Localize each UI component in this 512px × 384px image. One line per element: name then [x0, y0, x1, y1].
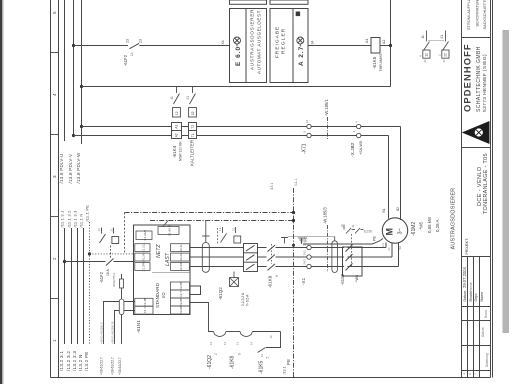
node PE junction 2	[292, 219, 295, 222]
svg-text:22: 22	[191, 111, 195, 115]
svg-text:REGLER: REGLER	[281, 28, 287, 54]
wire coil to rail riser	[390, 0, 392, 87]
wire control X1.3B out	[104, 302, 135, 345]
svg-text:5: 5	[52, 11, 57, 14]
svg-text:14: 14	[250, 341, 254, 345]
svg-text:BEVORRATUNG: BEVORRATUNG	[475, 0, 480, 27]
pin cell X1.3A	[136, 231, 152, 240]
node junction PDLV-W kaltleiter	[80, 125, 83, 128]
company logo triangle	[462, 121, 490, 144]
svg-text:+38-61/22.7: +38-61/22.7	[100, 357, 104, 375]
svg-text:2W1: 2W1	[303, 259, 307, 265]
thermistor relay -61K4 T1 T2	[189, 123, 197, 139]
svg-text:X1.9A R: X1.9A R	[168, 224, 172, 236]
pin cell X2.9B	[171, 306, 190, 314]
svg-text:+SA.W5: +SA.W5	[359, 141, 363, 155]
svg-text:V1: V1	[387, 247, 391, 251]
svg-text:X1.3B: X1.3B	[143, 298, 147, 306]
pin cell X1.2	[135, 253, 150, 261]
svg-text:X2.2V: X2.2V	[179, 253, 183, 261]
wire PE supply dotted	[89, 222, 91, 344]
motor -61M2	[382, 218, 407, 243]
svg-text:/13.2 3.3: /13.2 3.3	[72, 351, 77, 371]
svg-text:X1.1L1: X1.1L1	[141, 243, 145, 253]
svg-text:W6227B-6: W6227B-6	[112, 272, 116, 287]
svg-text:TONERANLAGE - T05: TONERANLAGE - T05	[483, 153, 489, 214]
scan right edge gray band	[503, 30, 510, 333]
svg-text:11: 11	[170, 96, 174, 100]
node junction PDLV-V kaltleiter	[72, 134, 75, 137]
pin cell X1.1	[135, 244, 150, 252]
svg-text:X1.3PE: X1.3PE	[141, 261, 145, 271]
svg-text:-61K5: -61K5	[372, 56, 377, 69]
svg-text:8: 8	[275, 275, 279, 277]
svg-text:13: 13	[236, 341, 240, 345]
svg-text:0,55 kW: 0,55 kW	[427, 216, 432, 233]
contact chain -61K8 aux	[240, 332, 252, 337]
svg-text:2: 2	[214, 353, 218, 355]
wire PDLV-W upper rail	[81, 0, 83, 144]
svg-text:A2: A2	[382, 40, 386, 44]
thermistor relay -61K4 A1 A2	[172, 123, 182, 139]
svg-text:TMR-6MHS: TMR-6MHS	[379, 53, 383, 72]
svg-text:/13.2 N: /13.2 N	[78, 354, 83, 371]
svg-text:-W.185/3: -W.185/3	[322, 207, 327, 224]
cable shield 1	[202, 243, 209, 273]
wire PE riser	[293, 188, 295, 378]
svg-text:T2: T2	[191, 125, 195, 129]
cable shield 2	[332, 241, 338, 273]
pin cell X1.3B	[135, 298, 153, 306]
svg-text:A1: A1	[365, 39, 369, 43]
wire motor phase U	[190, 243, 387, 248]
svg-text:/11.1 3.2: /11.1 3.2	[66, 210, 71, 228]
pin cell X2.1	[171, 244, 190, 252]
svg-text:M: M	[385, 228, 395, 236]
contact -61F2 main	[106, 259, 114, 266]
svg-text:13: 13	[97, 228, 101, 232]
svg-text:KALTLEITER: KALTLEITER	[189, 140, 194, 166]
contact chain -61Q2 aux	[214, 332, 226, 337]
svg-text:PE: PE	[286, 359, 291, 365]
svg-text:-61N1: -61N1	[136, 320, 141, 333]
svg-text:-X1: -X1	[301, 277, 306, 285]
svg-text:5: 5	[266, 357, 270, 359]
svg-text:/11.1 3.3: /11.1 3.3	[72, 210, 77, 228]
svg-text:T1: T1	[191, 133, 195, 137]
svg-text:12: 12	[425, 53, 429, 57]
node PE junction 3	[292, 244, 295, 247]
relay coil -61K5	[371, 38, 380, 54]
circuit breaker -61F2 aux	[100, 228, 119, 259]
wire PE bus upper	[125, 212, 294, 214]
svg-text:=38-G1-A/512W.18: =38-G1-A/512W.18	[111, 321, 115, 344]
wire PE branch dashed	[124, 213, 126, 254]
svg-text:A 2.7: A 2.7	[298, 46, 305, 66]
motor breaker -61Q2	[244, 244, 258, 272]
contact -61Q2 aux	[221, 227, 241, 243]
svg-text:21: 21	[440, 35, 444, 39]
svg-text:4: 4	[52, 93, 57, 96]
svg-text:/11.1 3.1: /11.1 3.1	[59, 210, 64, 228]
node junction coil output	[389, 44, 392, 47]
svg-text:2U1: 2U1	[303, 240, 307, 246]
svg-text:+38-61/22.7: +38-61/22.7	[111, 357, 115, 375]
svg-text:X2.3W: X2.3W	[179, 262, 183, 271]
svg-text:-61S2: -61S2	[340, 273, 345, 285]
pin cell X1.3	[135, 263, 150, 271]
frequency converter -61N1	[134, 225, 191, 315]
svg-text:21: 21	[231, 227, 235, 231]
svg-text:-X.JB2: -X.JB2	[350, 142, 356, 157]
wire chain step	[266, 332, 281, 348]
svg-text:/15.1: /15.1	[270, 183, 274, 190]
svg-text:-61Q2: -61Q2	[207, 355, 213, 369]
svg-text:X2.1U: X2.1U	[179, 243, 183, 251]
wire motor phase W	[190, 242, 399, 266]
contact chain -61K5	[258, 348, 266, 353]
cable marker -W.185/3	[327, 225, 329, 272]
scan left edge	[0, 0, 2, 384]
svg-text:16: 16	[269, 335, 273, 339]
node PE junction 1	[292, 211, 295, 214]
wire L feed	[65, 261, 106, 263]
svg-text:NETZ: NETZ	[156, 244, 162, 258]
svg-text:/13.2 3.2: /13.2 3.2	[66, 351, 71, 371]
svg-text:Norm: Norm	[484, 310, 488, 318]
svg-text:/11.1: /11.1	[294, 179, 298, 186]
svg-text:/13.2 3.1: /13.2 3.1	[59, 351, 64, 371]
svg-text:I/O: I/O	[161, 292, 166, 298]
svg-text:14: 14	[130, 52, 134, 56]
node junction PDLV-V top	[72, 44, 75, 47]
svg-text:X2.9B: X2.9B	[179, 306, 183, 314]
node L tap	[63, 260, 66, 263]
pin cell X2.3	[171, 263, 190, 271]
svg-text:/11.1 PE: /11.1 PE	[84, 205, 89, 222]
contact -61K4 21-22	[189, 87, 197, 118]
wire PE bus lower	[150, 220, 294, 222]
svg-text:0,28 A: 0,28 A	[435, 219, 440, 232]
svg-text:-61F2: -61F2	[99, 271, 104, 283]
contact mirror -61K5 11-12	[423, 31, 430, 59]
wire earth jog X1.9A	[163, 221, 168, 227]
svg-text:Änderung: Änderung	[485, 353, 489, 367]
svg-text:14: 14	[223, 341, 227, 345]
repair switch -61S2	[343, 247, 363, 276]
pin cell X2.7	[171, 290, 190, 298]
svg-text:OPDENHOFF: OPDENHOFF	[462, 43, 473, 112]
trip indicator Q2	[230, 272, 239, 287]
svg-text:STANDARD: STANDARD	[155, 282, 160, 308]
svg-text:22: 22	[444, 53, 448, 57]
svg-text:/13.8 PDLV-V: /13.8 PDLV-V	[68, 154, 73, 184]
wire faint link between mirror contacts	[428, 40, 444, 42]
svg-text:B2: B2	[396, 207, 400, 211]
svg-text:21: 21	[351, 224, 355, 228]
svg-text:-61F2: -61F2	[123, 54, 128, 66]
svg-text:-61K8: -61K8	[229, 355, 235, 369]
svg-text:Name: Name	[480, 292, 484, 302]
svg-text:23: 23	[139, 39, 143, 43]
svg-text:8: 8	[238, 353, 242, 355]
svg-text:Datum: Datum	[481, 327, 485, 337]
terminal -X1	[307, 245, 311, 268]
wire shield drain fuse loop	[121, 274, 123, 344]
svg-text:*M5: *M5	[418, 221, 423, 229]
contact -61S2 aux	[344, 225, 364, 234]
wire motor phase V	[190, 242, 393, 257]
svg-text:16 A: 16 A	[106, 268, 110, 276]
svg-text:-61K8: -61K8	[268, 275, 273, 288]
contactor -61K8	[268, 245, 276, 270]
svg-text:21: 21	[186, 96, 190, 100]
contact -61F2 auxiliary NO	[130, 43, 140, 48]
svg-text:+38-61/22.7: +38-61/22.7	[118, 357, 122, 375]
pin cell X2.2	[171, 253, 190, 261]
svg-text:11: 11	[421, 35, 425, 39]
svg-text:=38-G1-A/512W.17: =38-G1-A/512W.17	[100, 321, 104, 344]
svg-text:-61K4: -61K4	[172, 145, 177, 158]
pin cell X1.7	[135, 306, 153, 314]
svg-text:/13.2 PE: /13.2 PE	[84, 351, 89, 371]
svg-text:2: 2	[52, 257, 57, 260]
svg-text:13: 13	[218, 227, 222, 231]
svg-text:-61M2: -61M2	[411, 222, 417, 236]
svg-text:-W.185/1: -W.185/1	[324, 99, 329, 116]
cable marker -W.185/1	[327, 117, 329, 140]
wire 3.2	[71, 228, 73, 344]
wire 3.3	[77, 228, 79, 344]
wire PE feed dotted	[90, 253, 135, 255]
svg-text:10: 10	[305, 119, 309, 123]
svg-text:3: 3	[52, 175, 57, 178]
wire 3.1	[64, 228, 66, 344]
svg-text:SACKSCHUETTUNG: SACKSCHUETTUNG	[482, 0, 487, 30]
svg-text:SCHALTTECHNIK GMBH: SCHALTTECHNIK GMBH	[476, 46, 482, 112]
svg-text:13: 13	[126, 39, 130, 43]
wire PDLV-U upper rail	[64, 0, 66, 141]
svg-text:MSR 310 KK: MSR 310 KK	[179, 141, 183, 161]
svg-text:X1: X1	[221, 40, 225, 44]
svg-text:34: 34	[311, 41, 315, 45]
wire N	[83, 228, 85, 344]
wire kaltleiter 1	[82, 127, 401, 221]
node junction PDLV-W rail2	[80, 85, 83, 88]
svg-text:Datum: Datum	[463, 291, 467, 302]
PLC input box E6.0	[230, 0, 267, 83]
svg-text:X2.6B: X2.6B	[179, 282, 183, 290]
svg-text:FREIGABE: FREIGABE	[275, 26, 281, 58]
svg-text:13: 13	[340, 224, 344, 228]
svg-text:W1: W1	[398, 245, 402, 249]
svg-text:AUTOMAT AUSGELOEST: AUTOMAT AUSGELOEST	[257, 10, 262, 74]
svg-text:PE: PE	[373, 235, 377, 241]
mech link Q2 aux	[217, 228, 219, 244]
svg-text:3~: 3~	[398, 228, 404, 234]
terminal -X71	[307, 124, 311, 137]
wire control X1.7 out	[115, 311, 135, 345]
svg-text:/11.1 N: /11.1 N	[78, 214, 83, 228]
svg-text:/13.8 PDLV-W: /13.8 PDLV-W	[76, 152, 81, 184]
svg-text:53773 HENNEF (SIEG): 53773 HENNEF (SIEG)	[482, 54, 488, 112]
svg-text:STROMLAUFPLAN: STROMLAUFPLAN	[466, 0, 471, 30]
svg-text:13: 13	[209, 341, 213, 345]
svg-text:Gepr.: Gepr.	[474, 292, 478, 301]
svg-text:X1.2N: X1.2N	[141, 253, 145, 261]
title block frame	[462, 0, 493, 378]
svg-text:E29/: E29/	[364, 229, 373, 234]
svg-text:2V1: 2V1	[303, 250, 307, 255]
earth symbol at X1	[298, 238, 305, 244]
svg-text:E 6.0: E 6.0	[235, 46, 242, 66]
column ticks	[51, 53, 59, 299]
PLC output box A2.7	[270, 0, 308, 83]
svg-text:/13.1: /13.1	[283, 367, 287, 375]
svg-text:-61Q2: -61Q2	[218, 287, 223, 300]
contact -61K4 11-12	[173, 87, 181, 118]
lamp symbol A2.7	[297, 37, 304, 47]
svg-text:/13.8 PDLV-U: /13.8 PDLV-U	[59, 153, 64, 183]
svg-text:2,2-3,2 A: 2,2-3,2 A	[241, 292, 245, 306]
svg-text:PROJEKT:: PROJEKT:	[465, 238, 469, 254]
pin cell X2.6B	[171, 282, 190, 290]
svg-text:AUSTRAGSDOSIERER: AUSTRAGSDOSIERER	[249, 9, 254, 70]
svg-text:-X71: -X71	[302, 143, 308, 154]
svg-text:A1: A1	[175, 124, 179, 128]
wire control circuit top	[74, 45, 391, 47]
svg-text:21: 21	[109, 228, 113, 232]
svg-text:12: 12	[175, 111, 179, 115]
svg-text:LAST: LAST	[165, 252, 171, 266]
wire contact rail	[82, 86, 391, 88]
contact mirror -61K5 21-22	[442, 31, 449, 59]
wire PE to motor	[303, 239, 383, 245]
pin cell X1.9A	[158, 227, 179, 235]
svg-text:12: 12	[260, 353, 264, 357]
svg-text:X1.3A/5: X1.3A/5	[143, 230, 147, 241]
svg-text:Hense: Hense	[469, 282, 473, 292]
svg-text:AUSTRAGSDOSIERER: AUSTRAGSDOSIERER	[451, 188, 457, 250]
svg-text:U1: U1	[381, 243, 385, 247]
svg-text:29.07.2004: 29.07.2004	[462, 266, 467, 288]
svg-text:B1: B1	[382, 208, 386, 212]
wire kaltleiter 2	[74, 136, 389, 219]
node PE tap	[88, 252, 91, 255]
wire contact chain	[190, 303, 214, 332]
pin cell X2.8B	[171, 298, 190, 306]
svg-text:A2: A2	[175, 133, 179, 137]
svg-text:X2.7: X2.7	[179, 291, 183, 298]
svg-text:I> 6,5 A: I> 6,5 A	[246, 294, 250, 306]
svg-text:-61K5: -61K5	[258, 360, 264, 374]
lamp symbol E6.0	[234, 37, 241, 47]
svg-text:1: 1	[52, 339, 57, 342]
wire PDLV-V upper rail	[73, 0, 75, 136]
terminal -X.JB2	[357, 124, 361, 137]
svg-text:X1.7: X1.7	[143, 307, 147, 314]
svg-text:X2.8B: X2.8B	[179, 298, 183, 306]
svg-text:*W5: *W5	[355, 275, 359, 282]
wire jumper X2.6B-X2.7	[190, 286, 201, 295]
earth T clamp	[284, 238, 286, 244]
